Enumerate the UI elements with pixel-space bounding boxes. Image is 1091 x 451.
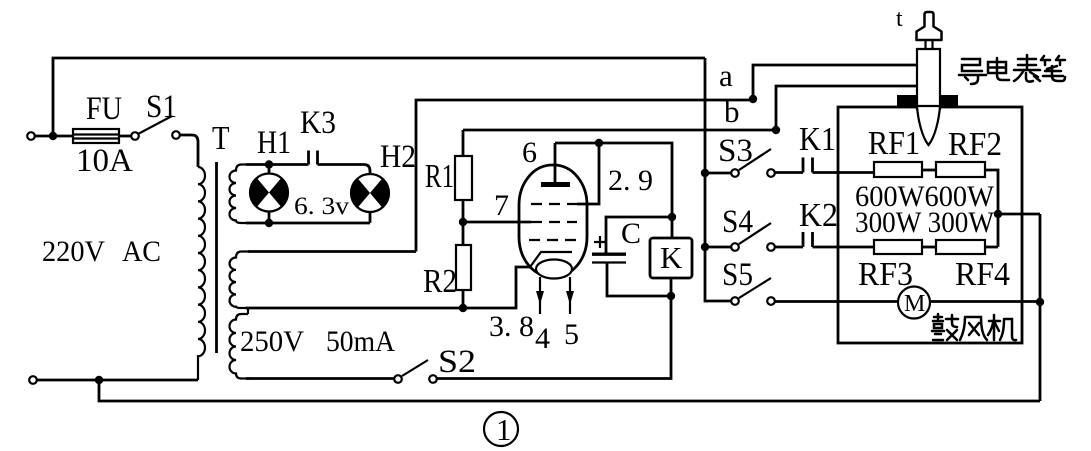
tube base dome <box>536 260 572 279</box>
transformer secondary 6.3v winding <box>230 165 249 224</box>
wire relay top to capacitor <box>606 217 672 254</box>
heater pin 5 <box>569 277 571 314</box>
motor M <box>898 287 930 319</box>
resistor RF1 <box>874 162 922 177</box>
wire a to probe <box>753 65 916 99</box>
svg-text:6. 3v: 6. 3v <box>294 193 350 220</box>
contact K3 <box>309 151 318 165</box>
svg-text:H1: H1 <box>257 125 291 161</box>
wire S4 to K2 <box>775 246 803 249</box>
switch S3 <box>718 133 775 177</box>
wire top rail <box>53 58 705 136</box>
wire K3 to H2 <box>318 165 371 176</box>
svg-text:4: 4 <box>535 322 550 355</box>
probe stem <box>926 40 933 49</box>
node bus S4 <box>701 243 709 251</box>
node relay top <box>668 213 676 221</box>
wire RF3 RF4 <box>922 246 936 249</box>
node R2 bottom <box>459 304 467 312</box>
switch S5 <box>722 257 775 305</box>
terminal input L <box>27 132 35 140</box>
wire node b <box>463 129 776 132</box>
node L junction <box>49 132 57 140</box>
svg-text:S3: S3 <box>718 133 753 169</box>
wire RF2 down <box>985 170 998 247</box>
transformer core <box>215 162 218 353</box>
wire bottom rail <box>99 380 1040 401</box>
node motor right <box>1036 298 1044 306</box>
svg-text:b: b <box>724 94 740 129</box>
svg-text:250V: 250V <box>240 325 304 358</box>
node H1 bottom <box>265 219 273 227</box>
terminal input N <box>29 376 37 384</box>
svg-text:K: K <box>660 240 683 275</box>
transformer T primary winding <box>198 167 205 380</box>
svg-text:H2: H2 <box>380 139 416 175</box>
wire 2.9 grid <box>577 143 599 204</box>
svg-text:S4: S4 <box>722 204 753 240</box>
probe cap <box>917 12 942 40</box>
label GuFengJi blower <box>932 314 1016 340</box>
node b <box>772 126 780 134</box>
lamp H1 <box>250 125 291 223</box>
wire b to probe <box>776 86 916 130</box>
node H1 top <box>265 160 273 168</box>
heater pin 4 <box>539 277 541 314</box>
probe black band <box>897 95 958 108</box>
node plate line <box>595 139 603 147</box>
switch S2 <box>394 344 476 383</box>
svg-text:2. 9: 2. 9 <box>608 164 653 197</box>
figure number 1 <box>484 412 518 447</box>
svg-text:FU: FU <box>86 91 122 127</box>
wire secondary bottom to S2 <box>246 377 394 380</box>
svg-text:S2: S2 <box>438 344 476 380</box>
wire right bus <box>705 58 731 301</box>
node N junction <box>95 376 103 384</box>
svg-text:RF2: RF2 <box>948 126 1002 163</box>
svg-text:10A: 10A <box>76 143 133 179</box>
svg-text:M: M <box>904 291 925 317</box>
resistor RF3 <box>874 240 922 254</box>
svg-text:RF4: RF4 <box>955 256 1010 293</box>
svg-text:7: 7 <box>494 189 509 222</box>
svg-text:C: C <box>621 217 641 250</box>
tube plate <box>541 182 570 187</box>
lamp H2 <box>351 139 416 223</box>
resistor RF4 <box>936 240 985 254</box>
relay K <box>650 217 692 296</box>
wire bus to S3 <box>705 172 731 175</box>
svg-text:K3: K3 <box>300 105 336 141</box>
svg-text:AC: AC <box>122 235 161 268</box>
wire S1 to transformer primary <box>180 135 198 167</box>
wire grid pin 7 <box>463 221 531 224</box>
svg-text:5: 5 <box>564 318 579 351</box>
wire bus to S4 <box>705 246 731 249</box>
wire input L to fuse <box>35 135 73 138</box>
wire tap to R2 <box>246 267 531 308</box>
tube plate lead <box>554 143 557 182</box>
contact K1 <box>803 158 813 173</box>
node a <box>749 95 757 103</box>
wire capacitor bottom <box>607 263 671 297</box>
wire input N <box>37 379 198 382</box>
wire K2 to RF3 <box>813 246 875 249</box>
switch S1 <box>131 89 180 140</box>
transformer secondary mid winding <box>230 252 251 309</box>
wire S3 to K1 <box>775 171 803 174</box>
svg-text:S5: S5 <box>722 257 753 293</box>
wire S5 to motor <box>775 300 1040 303</box>
node R1 R2 junction <box>459 218 467 226</box>
resistor R1 <box>425 130 472 222</box>
node RF junction <box>994 210 1002 218</box>
svg-text:S1: S1 <box>146 89 177 125</box>
svg-text:RF1: RF1 <box>868 125 920 162</box>
svg-text:K2: K2 <box>799 197 838 234</box>
label DaoDianBiaoBi <box>959 55 1065 84</box>
node relay bottom <box>667 292 675 300</box>
wire heater bottom <box>246 222 370 225</box>
transformer secondary low winding <box>230 314 253 379</box>
resistor R2 <box>423 222 471 308</box>
svg-text:R1: R1 <box>425 158 454 195</box>
svg-text:1: 1 <box>496 412 512 447</box>
svg-text:RF3: RF3 <box>858 256 913 293</box>
contact K2 <box>803 232 813 247</box>
wire RF junction right <box>998 213 1040 216</box>
wire fuse to S1 <box>119 135 131 138</box>
control box <box>838 107 1022 343</box>
tube grid dashes <box>531 203 577 205</box>
probe tip cone <box>917 106 940 145</box>
svg-text:K1: K1 <box>799 121 836 158</box>
node bus S3 <box>701 169 709 177</box>
switch S4 <box>722 204 775 251</box>
wire node a from secondary <box>248 250 416 253</box>
svg-text:T: T <box>212 120 230 157</box>
svg-text:50mA: 50mA <box>326 325 395 358</box>
wire right edge <box>1039 214 1042 401</box>
resistor RF2 <box>936 162 985 177</box>
svg-text:a: a <box>719 58 733 93</box>
svg-text:t: t <box>896 6 903 32</box>
probe barrel <box>917 49 940 110</box>
wire plate to relay <box>555 143 672 217</box>
capacitor C <box>592 217 641 263</box>
wire S2 to K bottom <box>437 296 671 379</box>
fuse FU <box>73 91 133 179</box>
svg-text:220V: 220V <box>42 235 105 268</box>
wire heater top to H1/K3 <box>246 163 309 166</box>
tube cathode <box>530 252 572 267</box>
tube V envelope <box>519 165 587 277</box>
wire winding jog <box>247 308 249 314</box>
wire RF4 right <box>985 246 998 249</box>
wire K1 to RF1 <box>813 171 875 174</box>
svg-text:6: 6 <box>522 136 537 169</box>
svg-text:300W 300W: 300W 300W <box>855 206 995 239</box>
svg-text:3. 8: 3. 8 <box>489 310 534 343</box>
wire RF1 RF2 <box>922 169 936 172</box>
svg-text:R2: R2 <box>423 263 457 300</box>
